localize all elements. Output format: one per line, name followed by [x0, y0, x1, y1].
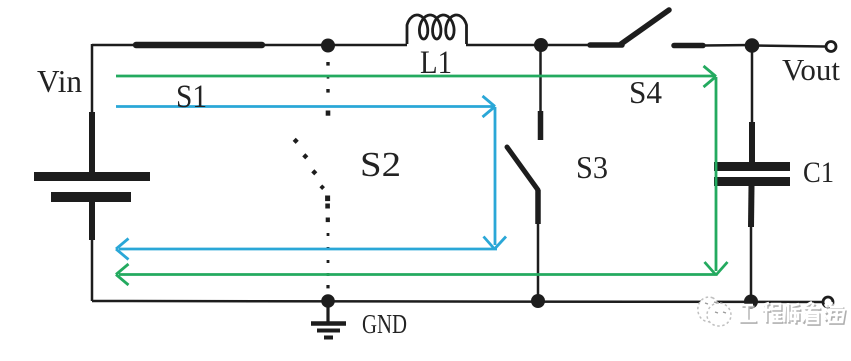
switch S1 (closed) thick bar — [136, 42, 262, 49]
switch S2 dotted vertical wire — [325, 62, 330, 288]
node E junction dot — [531, 294, 545, 308]
wire S1 to node A — [262, 44, 328, 47]
wire inductor to node B — [466, 44, 541, 47]
switch S2 dotted blade — [293, 138, 325, 190]
svg-text:Vin: Vin — [37, 63, 82, 99]
switch S3 upper contact stub — [538, 111, 544, 140]
battery short plate — [51, 192, 131, 202]
capacitor C1 top plate — [714, 162, 790, 171]
switch S3 lower contact stub — [535, 190, 541, 224]
wire battery to bottom rail — [91, 240, 94, 301]
svg-text:GND: GND — [362, 309, 407, 339]
cyan top arrow line — [116, 105, 493, 108]
node D junction dot (GND) — [321, 294, 335, 308]
svg-text:L1: L1 — [420, 45, 452, 81]
green top arrow line — [116, 75, 714, 78]
svg-text:Vout: Vout — [782, 52, 840, 87]
terminal bottom-right open circle — [823, 297, 833, 307]
cyan bottom arrow line — [119, 248, 497, 251]
svg-text:S2: S2 — [360, 145, 401, 184]
capacitor C1 bottom plate — [714, 177, 790, 186]
watermark logo — [698, 297, 731, 326]
current loop green (outer) — [116, 66, 728, 285]
node B junction dot — [534, 38, 548, 52]
battery negative stub — [89, 202, 95, 240]
wire S4 to node C — [703, 44, 752, 47]
svg-text:C1: C1 — [803, 156, 834, 189]
current loop cyan (inner) — [116, 96, 506, 260]
switch S3 wire to bottom node E — [537, 224, 540, 301]
battery long plate — [34, 172, 150, 181]
svg-text:S4: S4 — [629, 74, 662, 110]
capacitor C1 wire from node C — [751, 45, 754, 123]
terminal Vout open circle — [826, 42, 836, 52]
capacitor C1 top stub — [749, 122, 755, 162]
switch S3 wire from node B — [539, 45, 542, 112]
battery V positive stub — [89, 112, 95, 172]
ground bar 1 — [311, 321, 346, 326]
ground bar 2 — [317, 329, 340, 333]
ground bar 3 — [324, 336, 333, 340]
wire node A to inductor — [328, 44, 407, 47]
wire bottom rail — [92, 301, 822, 302]
cyan right vertical arrow line — [494, 107, 497, 245]
green bottom arrow line — [119, 273, 718, 276]
wire node B to switch S4 — [541, 44, 591, 47]
switch S4 blade (open) — [621, 10, 669, 44]
switch S4 right contact — [674, 43, 703, 49]
wire node C to Vout terminal — [752, 46, 825, 47]
svg-text:S3: S3 — [576, 149, 608, 185]
node F junction dot — [744, 295, 758, 309]
wire left branch vertical (Vin top) — [91, 44, 94, 113]
green right vertical arrow line — [715, 77, 718, 271]
node A junction dot — [321, 39, 335, 53]
wire top-left horizontal — [92, 44, 135, 47]
switch S4 left contact — [590, 42, 622, 48]
wire GND stub — [326, 301, 329, 322]
capacitor C1 wire to bottom node F — [750, 227, 753, 301]
watermark text 工程师看海 — [741, 304, 846, 325]
capacitor C1 bottom stub — [748, 186, 755, 227]
node C junction dot — [745, 38, 760, 53]
switch S3 blade (open) — [507, 147, 538, 190]
svg-text:S1: S1 — [176, 79, 207, 115]
inductor L1 coil — [407, 15, 467, 44]
